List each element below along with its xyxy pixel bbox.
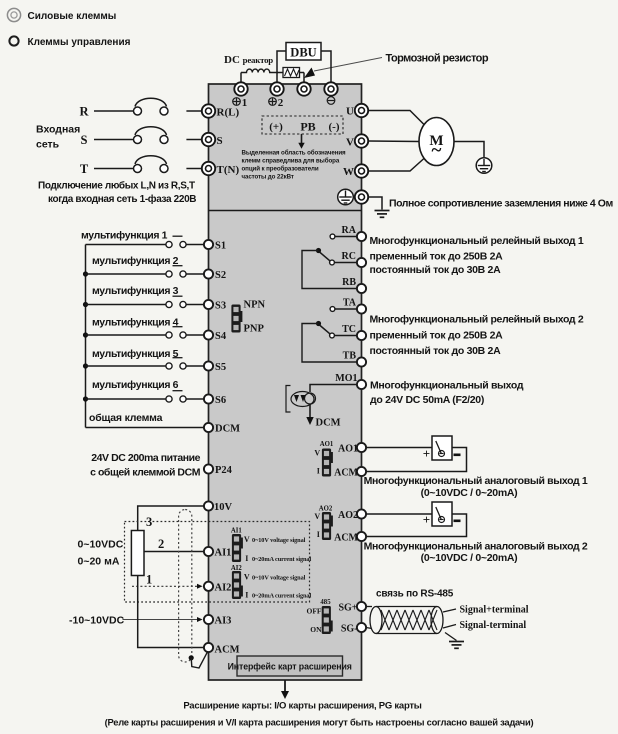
switch S6 input	[86, 398, 166, 400]
svg-text:S4: S4	[215, 331, 227, 342]
svg-text:SG-: SG-	[341, 624, 358, 635]
svg-text:V: V	[314, 512, 320, 521]
legend control-terminal symbol	[9, 36, 18, 45]
wire meter2 back to ACM	[366, 514, 467, 537]
svg-text:I: I	[245, 554, 248, 563]
DC reactor riser from terminal +1	[240, 73, 242, 85]
svg-text:ACM: ACM	[334, 468, 358, 479]
legend power-terminal symbol	[7, 8, 20, 21]
svg-text:RA: RA	[342, 225, 357, 236]
svg-text:DC реактор: DC реактор	[224, 54, 273, 66]
svg-text:мультифункция 5: мультифункция 5	[92, 348, 179, 360]
inverter main box	[209, 84, 362, 680]
DBU brake unit box	[286, 43, 321, 61]
svg-text:Многофункциональный релейный в: Многофункциональный релейный выход 2	[370, 314, 584, 326]
wire pot wiper to AI1	[144, 551, 204, 553]
relay 2 contact TC with arm	[330, 333, 335, 338]
multifunction input bus wire	[85, 245, 87, 428]
terminal RB	[357, 284, 366, 293]
svg-text:с общей клеммой DCM: с общей клеммой DCM	[90, 467, 201, 479]
arrow from dashed box to note	[301, 134, 303, 144]
svg-text:0~20 мА: 0~20 мА	[78, 556, 120, 568]
wire optocoupler to DCM arrow	[309, 404, 311, 418]
wire breaker R to terminal R(L)	[186, 110, 203, 112]
switch S2 input	[86, 273, 166, 275]
svg-text:AO2: AO2	[319, 506, 333, 513]
svg-text:24V DC 200ma питание: 24V DC 200ma питание	[91, 452, 200, 464]
terminal +2	[270, 82, 283, 95]
wire DBU left to +2	[277, 51, 286, 73]
relay 1 contact RA	[330, 234, 335, 239]
wire to AI3	[123, 619, 198, 621]
svg-text:DCM: DCM	[215, 424, 240, 435]
svg-text:0~10V voltage signal: 0~10V voltage signal	[252, 575, 306, 582]
switch S4 input	[86, 334, 166, 336]
svg-text:(Реле карты расширения и V/I к: (Реле карты расширения и V/I карта расши…	[105, 717, 534, 728]
svg-text:AO1: AO1	[320, 441, 334, 448]
svg-text:OFF: OFF	[307, 607, 322, 616]
svg-text:(0~10VDC / 0~20mA): (0~10VDC / 0~20mA)	[421, 552, 518, 564]
svg-text:мультифункция 1: мультифункция 1	[81, 230, 168, 242]
svg-text:+: +	[423, 512, 430, 527]
svg-text:мультифункция 4: мультифункция 4	[92, 317, 179, 329]
svg-text:R: R	[79, 105, 89, 119]
svg-text:0~20mA current signal: 0~20mA current signal	[252, 593, 311, 600]
svg-text:S6: S6	[215, 395, 226, 406]
terminal ACM (analog 2)	[357, 532, 366, 541]
junction dot S2	[83, 271, 88, 276]
analog meter 1	[432, 436, 452, 460]
terminal DCM	[204, 423, 213, 432]
junction dot S6	[83, 396, 88, 401]
svg-text:AI3: AI3	[215, 616, 232, 627]
svg-text:Многофункциональный аналоговый: Многофункциональный аналоговый выход 1	[364, 475, 588, 487]
terminal SG-	[357, 623, 366, 632]
terminal S3	[204, 300, 213, 309]
svg-text:Интерфейс карт расширения: Интерфейс карт расширения	[228, 662, 352, 672]
svg-text:I: I	[245, 591, 248, 600]
svg-text:0~10V voltage signal: 0~10V voltage signal	[252, 537, 306, 544]
svg-text:ACM: ACM	[334, 533, 358, 544]
wire relay2 common to TB	[302, 324, 357, 363]
note: Выделенная область обозначения ...	[242, 150, 347, 181]
svg-text:постоянный ток до 30В 2А: постоянный ток до 30В 2А	[370, 264, 502, 276]
switch S5 input	[86, 365, 166, 367]
junction dot S3	[83, 302, 88, 307]
riser terminal PB	[303, 73, 305, 85]
svg-text:2: 2	[278, 97, 284, 109]
svg-text:Полное сопротивление заземлени: Полное сопротивление заземления ниже 4 О…	[389, 198, 613, 210]
wire shield to ACM	[191, 652, 207, 668]
terminal PE	[355, 190, 368, 203]
svg-text:PB: PB	[300, 120, 315, 134]
svg-text:AO2: AO2	[338, 510, 358, 521]
wire S to breaker	[94, 139, 133, 141]
earth electrode (circle)	[476, 158, 492, 174]
junction dot S4	[83, 332, 88, 337]
wire AO1 to meter	[366, 447, 432, 449]
terminal U	[355, 104, 368, 117]
riser terminal +2	[276, 73, 278, 85]
svg-text:до 24V DC 50mA (F2/20): до 24V DC 50mA (F2/20)	[370, 394, 484, 406]
wire R to breaker	[94, 110, 133, 112]
svg-text:пременный ток до 250В 2А: пременный ток до 250В 2А	[370, 250, 504, 262]
terminal AI1	[204, 547, 213, 556]
breaker contact R	[134, 98, 169, 115]
svg-text:3: 3	[146, 515, 152, 529]
terminal RA	[357, 232, 366, 241]
svg-text:RC: RC	[342, 251, 356, 262]
terminal SG+	[357, 602, 366, 611]
terminal 10V	[204, 501, 213, 510]
wire breaker T to terminal T(N)	[186, 168, 203, 170]
svg-text:0~20mA current signal: 0~20mA current signal	[252, 556, 311, 563]
wire MO1 to optocoupler	[310, 385, 357, 393]
svg-text:сеть: сеть	[36, 139, 60, 151]
svg-text:S: S	[217, 135, 223, 147]
svg-text:TB: TB	[343, 350, 357, 361]
svg-text:RB: RB	[342, 277, 356, 288]
svg-text:ON: ON	[310, 625, 322, 634]
svg-text:U: U	[346, 106, 354, 118]
terminal +1	[234, 82, 247, 95]
brake resistor (hatched)	[277, 72, 283, 74]
arrowhead pointing to brake resistor	[304, 68, 315, 79]
svg-text:0~10VDC: 0~10VDC	[78, 539, 124, 551]
svg-text:TA: TA	[343, 297, 357, 308]
wire PE to ground	[368, 197, 382, 210]
svg-text:S1: S1	[215, 241, 226, 252]
junction dot S5	[83, 363, 88, 368]
terminal S1	[204, 240, 213, 249]
terminal V	[355, 134, 368, 147]
terminal TA	[357, 304, 366, 313]
svg-text:AI1: AI1	[231, 528, 243, 535]
wire breaker S to terminal S	[186, 139, 203, 141]
svg-text:DBU: DBU	[290, 46, 316, 60]
svg-text:AI1: AI1	[215, 548, 232, 559]
switch S1 input	[86, 244, 166, 246]
terminal S4	[204, 330, 213, 339]
inverter power/control separator line	[209, 210, 362, 212]
leader line to label	[314, 58, 382, 72]
svg-text:общая клемма: общая клемма	[89, 412, 163, 424]
svg-text:ACM: ACM	[215, 645, 240, 656]
svg-text:10V: 10V	[214, 502, 233, 513]
svg-text:~: ~	[432, 140, 442, 161]
svg-text:мультифункция 2: мультифункция 2	[92, 255, 179, 267]
terminal TC	[357, 331, 366, 340]
dashed option box (+) PB (-)	[262, 116, 343, 134]
svg-text:1: 1	[146, 573, 152, 587]
svg-text:2: 2	[158, 537, 164, 551]
wire DBU right to - terminal	[321, 51, 331, 84]
svg-text:пременный ток до 250В 2А: пременный ток до 250В 2А	[370, 330, 504, 342]
svg-text:I: I	[317, 467, 320, 476]
terminal ACM (analog 1)	[357, 467, 366, 476]
svg-text:W: W	[343, 166, 354, 178]
terminal S5	[204, 361, 213, 370]
svg-text:P24: P24	[215, 465, 233, 476]
expansion interface box	[228, 656, 352, 676]
svg-text:NPN: NPN	[244, 300, 266, 311]
NPN/PNP jumper	[231, 305, 240, 333]
svg-text:T: T	[80, 162, 89, 176]
svg-text:Signal-terminal: Signal-terminal	[460, 620, 527, 631]
terminal AI3	[204, 615, 213, 624]
svg-text:Силовые клеммы: Силовые клеммы	[28, 11, 117, 22]
terminal minus	[324, 82, 337, 95]
relay 1 contact RC with arm	[330, 260, 335, 265]
svg-text:AI2: AI2	[215, 583, 232, 594]
ground symbol	[375, 211, 390, 218]
svg-text:PNP: PNP	[244, 324, 265, 335]
svg-text:Выделенная область обозначения: Выделенная область обозначения	[242, 150, 347, 157]
analog meter 2	[432, 502, 452, 526]
switch S3 input	[86, 304, 166, 306]
svg-text:R(L): R(L)	[217, 107, 240, 119]
svg-text:485: 485	[320, 599, 331, 606]
terminal AO1	[357, 443, 366, 452]
shield junction dot	[189, 655, 194, 660]
terminal PB (unlabeled)	[297, 82, 310, 95]
svg-text:когда входная сеть 1-фаза 220В: когда входная сеть 1-фаза 220В	[48, 193, 196, 205]
svg-text:S: S	[81, 133, 88, 147]
svg-text:SG+: SG+	[338, 603, 357, 614]
dashed box around analog input selection	[125, 522, 310, 603]
svg-text:1: 1	[242, 97, 248, 109]
wire common to DCM	[86, 427, 205, 429]
terminal S	[202, 133, 215, 146]
svg-text:Многофункциональный релейный в: Многофункциональный релейный выход 1	[370, 235, 584, 247]
terminal AI2	[204, 582, 213, 591]
wire motor to earth	[454, 142, 484, 158]
terminal R(L)	[202, 104, 215, 117]
svg-text:(+): (+)	[269, 121, 283, 133]
svg-text:S3: S3	[215, 301, 226, 312]
svg-text:опций к преобразователи: опций к преобразователи	[242, 166, 319, 173]
svg-text:DCM: DCM	[316, 418, 341, 429]
svg-text:мультифункция 6: мультифункция 6	[92, 379, 179, 391]
terminal RC	[357, 258, 366, 267]
optocoupler	[286, 386, 316, 413]
potentiometer	[131, 531, 144, 576]
svg-text:Подключение любых L,N из R,S,T: Подключение любых L,N из R,S,T	[38, 180, 195, 192]
cable shield to ground	[445, 633, 457, 641]
twisted pair shielded cable	[366, 607, 456, 634]
PE symbol inside box	[338, 189, 354, 205]
svg-text:S5: S5	[215, 362, 226, 373]
svg-text:частоты до 22кВт: частоты до 22кВт	[242, 174, 294, 181]
svg-text:V: V	[346, 137, 354, 149]
svg-text:(-): (-)	[329, 121, 340, 133]
svg-text:AO1: AO1	[338, 444, 358, 455]
wire T to breaker	[94, 168, 133, 170]
arrow from box bottom	[284, 680, 286, 692]
terminal S6	[204, 394, 213, 403]
dotted wire to AI2	[132, 585, 197, 587]
svg-text:T(N): T(N)	[217, 164, 240, 176]
terminal AO2	[357, 509, 366, 518]
relay 2 contact TA	[330, 307, 335, 312]
svg-text:Входная: Входная	[36, 124, 80, 136]
terminal W	[355, 164, 368, 177]
wire U to motor	[368, 111, 425, 126]
svg-text:V: V	[244, 535, 250, 544]
wire meter back to ACM	[366, 448, 467, 472]
terminal T(N)	[202, 162, 215, 175]
breaker contact S	[134, 127, 169, 144]
svg-text:(0~10VDC / 0~20mA): (0~10VDC / 0~20mA)	[421, 487, 518, 499]
svg-text:Signal+terminal: Signal+terminal	[460, 605, 529, 616]
svg-text:связь по RS-485: связь по RS-485	[376, 589, 454, 600]
svg-text:Клеммы управления: Клеммы управления	[28, 37, 131, 48]
svg-text:V: V	[314, 449, 320, 458]
svg-text:AI2: AI2	[231, 565, 243, 572]
terminal MO1	[357, 380, 366, 389]
wire relay1 common to RB	[302, 251, 357, 289]
wire 10V to potentiometer	[138, 506, 204, 531]
svg-text:-10~10VDC: -10~10VDC	[69, 615, 125, 627]
wire AO2 to meter	[366, 513, 432, 515]
terminal ACM	[204, 643, 213, 652]
svg-text:+: +	[423, 446, 430, 461]
terminal S2	[204, 269, 213, 278]
wire V to motor	[368, 140, 419, 143]
shield cable (dashed capsule)	[179, 510, 192, 663]
svg-text:клемм справедлива для выбора: клемм справедлива для выбора	[242, 158, 340, 165]
svg-text:Тормозной резистор: Тормозной резистор	[386, 53, 489, 65]
svg-text:V: V	[244, 573, 250, 582]
terminal P24	[204, 464, 213, 473]
breaker contact T	[134, 156, 169, 173]
svg-text:I: I	[317, 530, 320, 539]
svg-text:мультифункция 3: мультифункция 3	[92, 285, 179, 297]
svg-text:Расширение карты: I/O карты ра: Расширение карты: I/O карты расширения, …	[183, 701, 421, 712]
wire W to motor	[368, 158, 425, 171]
svg-text:S2: S2	[215, 270, 226, 281]
svg-text:Многофункциональный аналоговый: Многофункциональный аналоговый выход 2	[364, 541, 588, 553]
DC reactor coil	[241, 69, 278, 72]
svg-text:MO1: MO1	[335, 373, 357, 384]
wire pot bottom to ACM	[138, 576, 204, 648]
motor M	[419, 118, 454, 166]
svg-text:Многофункциональный выход: Многофункциональный выход	[370, 380, 524, 392]
svg-text:постоянный ток до 30В 2А: постоянный ток до 30В 2А	[370, 345, 502, 357]
svg-text:TC: TC	[342, 324, 356, 335]
terminal TB	[357, 357, 366, 366]
